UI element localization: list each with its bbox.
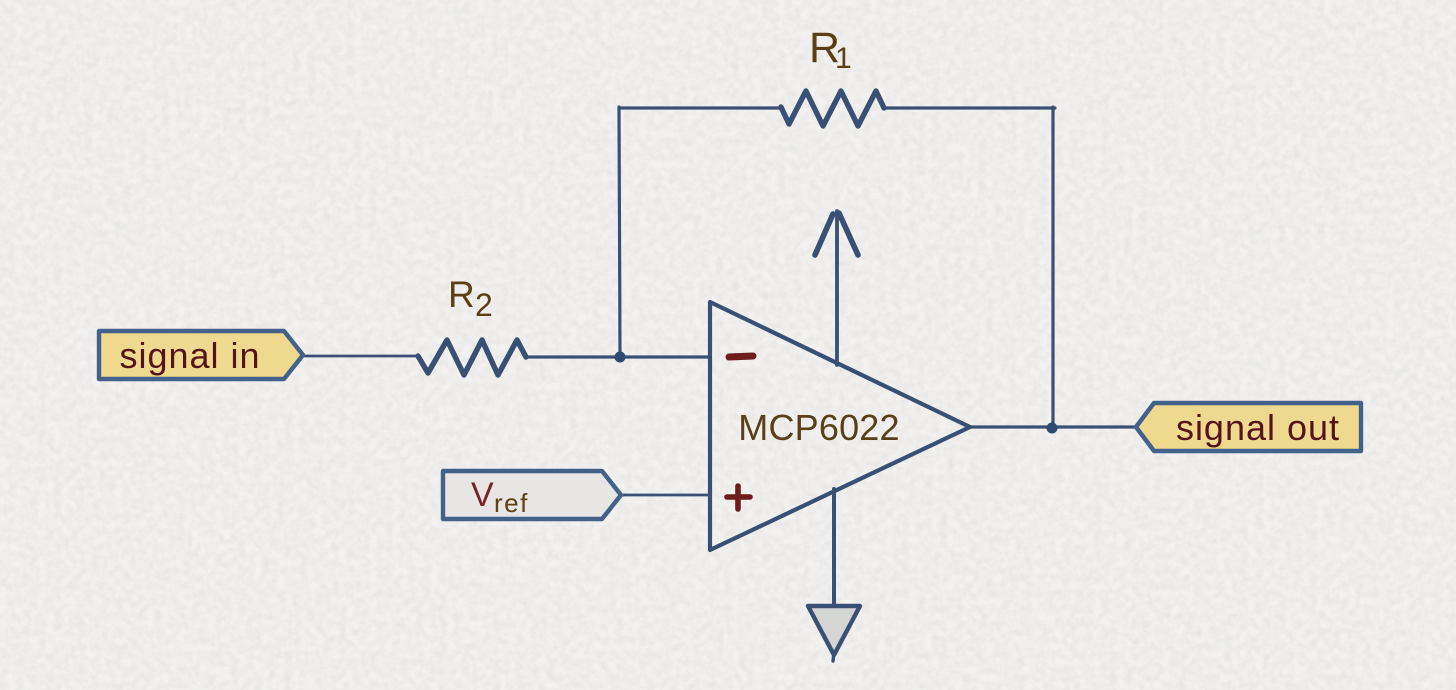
power arrow left barb (815, 214, 833, 255)
wire: Vref to non-inverting input (621, 494, 710, 497)
wire: R2 to inverting input (526, 355, 710, 358)
svg-text:V: V (471, 476, 494, 514)
power arrow right barb (839, 213, 858, 255)
resistor R1 (781, 91, 884, 126)
op-amp plus sign (727, 486, 750, 509)
node: output junction (1047, 423, 1058, 434)
ground apex tail (833, 653, 834, 661)
svg-text:signal in: signal in (119, 335, 260, 376)
flag: signal out (1136, 403, 1361, 451)
wire: output (970, 425, 1136, 428)
resistor R2 (418, 340, 526, 375)
svg-text:2: 2 (475, 287, 493, 323)
wire: op-amp to ground (832, 489, 836, 607)
svg-text:signal out: signal out (1176, 407, 1340, 448)
wire: signal in to R2 (303, 355, 418, 358)
svg-text:R: R (448, 274, 475, 315)
flag: signal in (99, 331, 303, 379)
wire: feedback top left segment (619, 106, 781, 109)
node: inverting input junction (615, 352, 626, 363)
wire: feedback top right segment (884, 106, 1055, 109)
power supply arrow line (835, 211, 839, 365)
ground symbol (808, 606, 860, 655)
flag: Vref (443, 471, 621, 519)
op-amp minus sign (729, 356, 753, 357)
wire: feedback left vertical (619, 107, 620, 356)
svg-text:MCP6022: MCP6022 (738, 407, 899, 448)
svg-text:ref: ref (494, 488, 529, 518)
wire: feedback right vertical (1051, 107, 1054, 427)
svg-text:1: 1 (835, 42, 852, 75)
op-amp U1 triangle (710, 302, 970, 550)
